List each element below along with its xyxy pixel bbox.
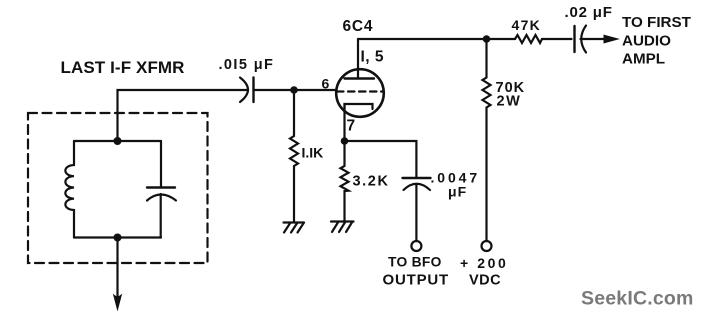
svg-text:6C4: 6C4 — [343, 18, 374, 35]
wire: output cap to arrow — [581, 38, 606, 40]
svg-text:TO BFO: TO BFO — [388, 255, 442, 270]
tank circuit rectangle top and bottom — [74, 141, 161, 238]
resistor R2 3.2K (cathode bias) — [341, 141, 349, 221]
arrow: downward output arrow below box — [114, 295, 122, 310]
ground (below R2, rake style) — [331, 222, 354, 233]
svg-text:.0I5 μF: .0I5 μF — [219, 57, 275, 73]
svg-text:TO FIRST: TO FIRST — [622, 14, 692, 31]
svg-text:AMPL: AMPL — [622, 51, 665, 68]
svg-text:+ 200: + 200 — [460, 255, 508, 271]
node E: tank bottom junction dot — [114, 234, 122, 242]
svg-text:AUDIO: AUDIO — [622, 33, 671, 50]
ground (below R1, rake style) — [284, 223, 305, 233]
svg-text:I, 5: I, 5 — [361, 49, 385, 66]
wire: tank bottom lead down through box — [116, 238, 118, 298]
wire: riser from tank top node up to main grid line and right to coupling cap — [118, 90, 249, 141]
capacitor C4 tank (flat top plate + curved bottom plate) — [160, 141, 162, 187]
inductor L1 (secondary winding, 4 humps) — [65, 141, 74, 238]
resistor R1 1.1K (grid leak) — [290, 90, 298, 221]
node C: plate supply junction dot — [483, 35, 491, 43]
wire: cathode node right to BFO branch corner — [345, 141, 417, 177]
arrow to first audio amplifier — [604, 35, 618, 43]
resistor R4 70K 2W (B+ dropping) — [483, 39, 491, 241]
wire: plate lead up to B+ line — [357, 39, 359, 79]
node A: grid junction dot — [290, 86, 298, 94]
capacitor C1 .015 uF (series coupling, curved left plate + flat right plate) — [240, 78, 248, 103]
svg-text:I.IK: I.IK — [302, 145, 324, 161]
node B: cathode junction dot — [341, 137, 349, 145]
svg-text:SeekIC.com: SeekIC.com — [581, 288, 694, 310]
terminal: +200 VDC — [482, 241, 492, 251]
tube grid (dashed), pin 6 — [337, 90, 383, 92]
svg-text:VDC: VDC — [469, 273, 501, 289]
tube cathode, pin 7 — [345, 104, 373, 109]
svg-text:.02 μF: .02 μF — [565, 4, 613, 21]
transformer T1: dashed enclosure (LAST I-F XFMR) — [28, 113, 208, 263]
tube plate (anode) bar, pins 1,5 — [345, 77, 375, 79]
node D: tank top junction dot — [114, 137, 122, 145]
tube U1 6C4 envelope — [336, 69, 384, 117]
svg-text:OUTPUT: OUTPUT — [383, 272, 449, 289]
capacitor C3 .02 uF (flat left plate + curved right plate) — [573, 26, 575, 52]
svg-text:LAST I-F XFMR: LAST I-F XFMR — [61, 58, 185, 77]
capacitor C2 .0047 uF (flat top plate + curved bottom plate) — [403, 177, 431, 179]
wire: C2 down to BFO terminal — [415, 185, 417, 242]
svg-text:7: 7 — [347, 118, 356, 135]
resistor R3 47K (horizontal, plate load) — [515, 35, 542, 43]
svg-text:6: 6 — [322, 76, 330, 92]
svg-text:3.2K: 3.2K — [353, 174, 390, 190]
wire: cathode lead down to cathode node — [343, 104, 345, 141]
wire: grid node to tube pin 6 — [294, 89, 336, 91]
svg-text:2W: 2W — [497, 94, 522, 110]
svg-text:47K: 47K — [512, 17, 542, 33]
terminal: TO BFO OUTPUT — [411, 241, 421, 251]
wire: coupling cap to grid node — [254, 89, 295, 91]
wire: R3 to output cap — [542, 38, 572, 40]
svg-text:μF: μF — [448, 184, 467, 200]
wire: B+ line from plate lead to plate node and to R3 — [358, 38, 515, 40]
